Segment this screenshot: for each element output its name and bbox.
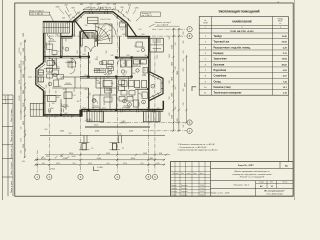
svg-text:Этаж дом - тип 3: Этаж дом - тип 3 [233, 184, 249, 186]
entrance steps bottom-left [30, 103, 43, 116]
svg-text:600: 600 [127, 55, 130, 57]
svg-text:302: 302 [65, 113, 68, 115]
svg-text:2.4: 2.4 [101, 69, 103, 71]
svg-text:302: 302 [90, 61, 92, 64]
svg-text:(1510): (1510) [19, 47, 21, 53]
svg-text:Подп: Подп [193, 173, 197, 175]
svg-text:240: 240 [157, 163, 160, 165]
svg-text:600: 600 [57, 97, 60, 99]
svg-text:Провер.: Провер. [171, 188, 178, 190]
svg-text:Разраб.: Разраб. [171, 185, 177, 187]
door arc left room [48, 58, 55, 65]
svg-text:4100: 4100 [60, 130, 64, 132]
svg-text:Листов: Листов [282, 182, 287, 184]
bottom-left dim text row [45, 154, 60, 156]
bay left side wall [72, 22, 74, 37]
svg-text:1,50: 1,50 [120, 23, 123, 25]
svg-text:1450: 1450 [169, 54, 171, 58]
svg-text:Тамбур: Тамбур [214, 35, 223, 38]
svg-text:Подп. и дата: Подп. и дата [11, 180, 13, 193]
svg-text:304: 304 [90, 4, 93, 6]
bay fixtures [39, 70, 44, 75]
wall junction nodes [79, 56, 81, 58]
svg-text:8: 8 [129, 104, 130, 106]
svg-text:Дата: Дата [200, 173, 203, 175]
octagonal bay outline [73, 12, 128, 23]
door arc hall [70, 58, 76, 64]
svg-text:2410: 2410 [102, 108, 106, 110]
svg-text:1,50: 1,50 [72, 95, 75, 97]
svg-text:Иванова: Иванова [181, 185, 187, 187]
svg-text:3400: 3400 [23, 90, 25, 94]
svg-text:302: 302 [25, 40, 27, 43]
svg-text:ПК „Спецавтоматика“: ПК „Спецавтоматика“ [264, 190, 284, 192]
svg-text:См. л. АС-01: См. л. АС-01 [30, 13, 44, 16]
svg-text:302: 302 [135, 45, 137, 48]
svg-text:2,40: 2,40 [141, 47, 144, 49]
svg-text:2410: 2410 [69, 153, 73, 155]
svg-text:910: 910 [107, 163, 110, 165]
svg-text:Утверд.: Утверд. [171, 194, 177, 196]
svg-text:302: 302 [51, 65, 54, 67]
svg-text:302: 302 [56, 91, 58, 94]
left wall [43, 33, 45, 62]
svg-text:1600: 1600 [172, 93, 174, 97]
svg-text:240: 240 [52, 103, 55, 105]
svg-text:1450: 1450 [172, 62, 174, 66]
svg-text:10.03: 10.03 [200, 194, 204, 196]
svg-text:240: 240 [111, 83, 114, 85]
svg-text:910: 910 [175, 43, 177, 46]
svg-text:Подсобная: Подсобная [214, 69, 227, 72]
svg-text:Закусочная: Закусочная [214, 59, 228, 61]
svg-text:302: 302 [77, 101, 80, 103]
svg-text:600: 600 [53, 55, 56, 57]
svg-text:1,20х2,10: 1,20х2,10 [100, 19, 107, 21]
svg-text:1500: 1500 [23, 48, 25, 52]
svg-text:Инв. № подл.: Инв. № подл. [10, 108, 13, 121]
svg-text:302: 302 [63, 89, 66, 91]
svg-text:240: 240 [42, 163, 45, 165]
svg-text:302: 302 [90, 93, 92, 96]
svg-text:910: 910 [25, 149, 27, 152]
porch A below south wall [87, 111, 104, 122]
svg-text:совмещение, обустройство с авт: совмещение, обустройство с автовыставкой [232, 173, 271, 176]
svg-text:240: 240 [183, 125, 185, 128]
svg-text:4100: 4100 [95, 130, 99, 132]
svg-text:7: 7 [66, 49, 67, 51]
fan stair treads [94, 24, 113, 44]
south wall right section [81, 109, 163, 111]
svg-text:910: 910 [183, 103, 185, 106]
svg-text:Кафе на отм. - 1300: Кафе на отм. - 1300 [211, 191, 230, 194]
svg-text:302: 302 [87, 97, 90, 99]
svg-text:254: 254 [62, 18, 65, 20]
svg-text:Н.контр.: Н.контр. [171, 191, 178, 193]
svg-text:з-1: з-1 [277, 2, 279, 4]
svg-text:302: 302 [145, 69, 147, 72]
svg-text:302: 302 [175, 107, 177, 110]
svg-text:240: 240 [85, 25, 88, 27]
svg-text:Взам. инв. №: Взам. инв. № [10, 145, 13, 159]
svg-text:10.03: 10.03 [200, 188, 204, 190]
svg-text:„Реактив“ та на площадке М: „Реактив“ та на площадке М [239, 177, 264, 179]
svg-text:0.8: 0.8 [96, 71, 98, 73]
svg-text:302: 302 [69, 133, 72, 135]
svg-text:2400: 2400 [23, 74, 25, 78]
svg-text:НАИМЕНОВАНИЕ: НАИМЕНОВАНИЕ [232, 20, 252, 23]
svg-text:600: 600 [77, 51, 79, 54]
svg-text:до: до [122, 148, 124, 150]
svg-text:600: 600 [119, 47, 121, 50]
svg-text:600: 600 [107, 77, 110, 79]
svg-text:Торговый зал: Торговый зал [214, 41, 230, 44]
svg-text:302: 302 [145, 55, 148, 57]
svg-text:940: 940 [63, 47, 65, 50]
svg-text:1450: 1450 [172, 77, 174, 81]
svg-text:Стадия: Стадия [259, 182, 264, 184]
svg-text:240: 240 [60, 156, 63, 158]
svg-text:1295: 1295 [56, 7, 60, 9]
svg-text:Жилой нерекреационный жилой до: Жилой нерекреационный жилой дом на [234, 170, 270, 173]
interior walls [60, 33, 62, 57]
svg-text:ПОМ: ПОМ [203, 23, 208, 25]
svg-text:4: 4 [143, 102, 144, 104]
svg-text:240: 240 [141, 63, 144, 65]
svg-text:304: 304 [105, 7, 108, 9]
svg-text:1890: 1890 [122, 34, 126, 36]
svg-text:600: 600 [183, 32, 185, 35]
svg-text:240: 240 [21, 151, 23, 154]
boxed fixture schedule small [94, 69, 105, 73]
svg-text:Лист: Лист [270, 182, 274, 184]
svg-text:600: 600 [74, 89, 76, 92]
svg-text:3200: 3200 [23, 144, 25, 148]
svg-text:908: 908 [113, 4, 116, 6]
upper vestibule in bay [88, 17, 99, 23]
svg-text:2410: 2410 [94, 125, 98, 127]
svg-text:240: 240 [169, 97, 171, 100]
svg-text:940: 940 [143, 75, 146, 77]
axis circles bottom [35, 174, 40, 179]
svg-text:240: 240 [175, 67, 177, 70]
svg-text:2410: 2410 [106, 153, 110, 155]
svg-text:1500: 1500 [46, 42, 48, 46]
big door arc right of vestibule [105, 24, 117, 36]
svg-text:302: 302 [137, 51, 140, 53]
svg-text:1410: 1410 [72, 156, 76, 158]
section mark right [192, 87, 196, 91]
svg-text:1: 1 [101, 63, 102, 65]
svg-text:45,60: 45,60 [282, 63, 288, 66]
right margin column line [287, 17, 289, 162]
svg-text:910: 910 [133, 73, 136, 75]
svg-text:1. Влажность помещения см. л.: 1. Влажность помещения см. л. АС-08 [178, 143, 216, 146]
svg-text:1510: 1510 [21, 138, 23, 142]
svg-text:302: 302 [183, 89, 185, 92]
svg-text:г. Усть-Каменогорск: г. Усть-Каменогорск [266, 193, 283, 195]
svg-text:940: 940 [121, 65, 123, 68]
svg-text:10,45: 10,45 [282, 35, 288, 38]
svg-text:240: 240 [25, 133, 27, 136]
svg-text:1510: 1510 [82, 108, 86, 110]
svg-text:Техническое помещение: Техническое помещение [214, 93, 243, 95]
svg-text:600: 600 [149, 61, 151, 64]
svg-text:300: 300 [157, 108, 160, 110]
chimney mark above bay [100, 7, 102, 10]
svg-text:302: 302 [103, 26, 106, 28]
svg-text:до: до [92, 148, 94, 150]
main walls [61, 36, 73, 38]
svg-text:600: 600 [175, 87, 177, 90]
svg-text:298: 298 [108, 8, 111, 10]
svg-text:Заказ № „ХХР“: Заказ № „ХХР“ [238, 164, 254, 167]
svg-text:304: 304 [80, 4, 83, 6]
svg-text:Коридор: Коридор [214, 53, 224, 55]
svg-text:600: 600 [81, 45, 83, 48]
door arcs below stair core [85, 46, 91, 52]
svg-text:304: 304 [128, 4, 131, 6]
svg-text:940: 940 [119, 134, 122, 136]
svg-text:302: 302 [111, 69, 113, 72]
svg-text:304: 304 [107, 4, 110, 6]
svg-text:302: 302 [66, 39, 68, 42]
element labels top-right [141, 12, 161, 17]
svg-text:5: 5 [152, 86, 153, 88]
staircase block top-left [43, 21, 69, 33]
svg-text:1295: 1295 [135, 8, 139, 10]
svg-text:240: 240 [21, 43, 23, 46]
extra center fixtures [108, 61, 114, 65]
axis circles right [187, 27, 192, 32]
leader arrows top band [59, 9, 64, 15]
sheet edge line [1, 0, 3, 200]
kitchen fixtures left [47, 68, 53, 72]
svg-text:1,20: 1,20 [135, 61, 138, 63]
svg-text:Склад: Склад [214, 81, 222, 83]
svg-text:1,2: 1,2 [123, 63, 125, 65]
right wall [148, 37, 150, 111]
svg-text:2410: 2410 [88, 163, 92, 165]
svg-text:600: 600 [85, 89, 88, 91]
svg-text:1,50: 1,50 [120, 29, 123, 31]
bottom dimension lines [35, 159, 165, 161]
svg-text:1.5: 1.5 [96, 69, 98, 71]
svg-text:910: 910 [97, 83, 100, 85]
window tick marks on south walls [48, 109, 50, 113]
svg-text:10.03: 10.03 [200, 185, 204, 187]
svg-text:1510: 1510 [46, 156, 50, 158]
svg-text:910: 910 [73, 163, 76, 165]
svg-text:1,20: 1,20 [58, 51, 61, 53]
svg-text:Сидоров: Сидоров [181, 191, 188, 193]
top dimension lines over bay [83, 8, 115, 10]
svg-text:910: 910 [169, 81, 171, 84]
svg-text:Лист: Лист [181, 173, 185, 175]
svg-text:10.03: 10.03 [200, 191, 204, 193]
svg-text:Изм: Изм [173, 173, 176, 175]
svg-text:940: 940 [111, 55, 114, 57]
svg-text:Разгрузочная с подсобн. помещ.: Разгрузочная с подсобн. помещ. [214, 46, 251, 49]
svg-text:17400: 17400 [97, 167, 103, 169]
svg-text:2410: 2410 [123, 163, 127, 165]
svg-text:1295: 1295 [88, 7, 92, 9]
svg-text:910: 910 [183, 69, 185, 72]
left bay (angled) [36, 63, 44, 91]
column stub axis 3 [83, 135, 85, 143]
svg-text:Служебная: Служебная [214, 75, 227, 78]
svg-text:Формат А2: Формат А2 [4, 96, 7, 105]
top-right room [150, 38, 163, 52]
svg-text:304: 304 [108, 19, 111, 21]
svg-text:910: 910 [21, 127, 23, 130]
svg-text:Петрова: Петрова [181, 188, 187, 190]
porch B below south wall [144, 111, 161, 122]
central stair core (rounded) [81, 31, 98, 47]
svg-text:302: 302 [84, 32, 87, 34]
column stub axis 4 [118, 135, 120, 143]
svg-text:см. л. АС-3: см. л. АС-3 [142, 14, 152, 17]
sheet frame [15, 3, 293, 196]
svg-text:3: 3 [280, 27, 281, 29]
svg-text:1500: 1500 [157, 55, 159, 59]
section mark bottom [94, 167, 100, 171]
dark wall-step junction [79, 110, 82, 117]
terrace sill lines [85, 126, 150, 128]
svg-text:302: 302 [123, 75, 126, 77]
svg-text:29,96: 29,96 [282, 42, 288, 44]
svg-text:1510: 1510 [23, 103, 25, 107]
svg-text:302: 302 [183, 41, 185, 44]
svg-text:302: 302 [142, 34, 145, 36]
svg-text:№: № [204, 19, 206, 22]
svg-text:(1750): (1750) [49, 168, 55, 170]
bay right side wall [126, 23, 128, 37]
svg-text:940: 940 [61, 77, 63, 80]
svg-text:5670: 5670 [184, 83, 186, 87]
svg-text:910: 910 [67, 56, 70, 58]
svg-text:600: 600 [45, 129, 48, 131]
svg-text:7400: 7400 [177, 71, 179, 75]
svg-text:200: 200 [97, 4, 100, 6]
svg-text:820: 820 [177, 118, 179, 121]
svg-text:2410: 2410 [56, 163, 60, 165]
svg-text:600: 600 [109, 26, 112, 28]
svg-text:3: 3 [124, 101, 125, 103]
svg-text:(1510): (1510) [19, 95, 21, 101]
svg-text:940: 940 [70, 63, 72, 66]
svg-text:6: 6 [54, 75, 55, 77]
svg-text:302: 302 [147, 108, 150, 110]
svg-text:600: 600 [107, 75, 110, 77]
fill sparse patches [107, 64, 113, 69]
svg-text:910: 910 [139, 29, 142, 31]
svg-text:910: 910 [127, 25, 129, 28]
svg-text:302: 302 [57, 67, 60, 69]
svg-text:АС: АС [285, 164, 289, 167]
diagonal wall from stair to core [75, 20, 89, 39]
left filing stamp strip [7, 95, 9, 196]
svg-text:4100: 4100 [129, 130, 133, 132]
svg-text:1500: 1500 [23, 33, 25, 37]
svg-text:240: 240 [25, 58, 27, 61]
svg-text:910: 910 [183, 51, 185, 54]
svg-text:1288: 1288 [92, 8, 96, 10]
svg-text:1890: 1890 [71, 35, 75, 37]
right dimension lines [172, 28, 174, 131]
svg-text:Отделку помещений наружную см.: Отделку помещений наружную см. АС-12 [178, 149, 219, 152]
svg-text:ПОМ. НА ОТМ. +0,000: ПОМ. НА ОТМ. +0,000 [231, 30, 255, 33]
svg-text:1200: 1200 [117, 86, 119, 90]
svg-text:600: 600 [139, 103, 141, 106]
svg-text:600: 600 [22, 161, 25, 163]
svg-text:600: 600 [169, 113, 171, 116]
svg-text:1.2: 1.2 [101, 71, 103, 73]
svg-text:600: 600 [126, 71, 128, 74]
extra fixtures / interior detail [121, 91, 127, 96]
svg-text:200: 200 [121, 7, 124, 9]
room number circles [65, 47, 69, 51]
svg-text:(910): (910) [19, 80, 21, 85]
svg-text:(240): (240) [19, 64, 21, 69]
svg-text:Остекление см. л. АС-05,09: Остекление см. л. АС-05,09 [180, 146, 208, 149]
svg-text:1510: 1510 [82, 54, 86, 56]
svg-text:1200: 1200 [172, 115, 174, 119]
svg-text:910: 910 [21, 53, 23, 56]
svg-text:2100: 2100 [172, 45, 174, 49]
svg-text:2: 2 [93, 100, 94, 102]
svg-text:Комната (стаж): Комната (стаж) [214, 87, 231, 89]
left dimension line [24, 40, 26, 158]
svg-text:16,85: 16,85 [282, 59, 288, 61]
svg-text:908: 908 [72, 8, 75, 10]
wc fixtures cluster [121, 60, 126, 67]
bay interior detail [120, 22, 126, 27]
svg-text:600: 600 [51, 108, 54, 110]
svg-text:302: 302 [106, 51, 108, 54]
svg-text:Подп. и дата: Подп. и дата [11, 129, 13, 142]
svg-text:1.20: 1.20 [97, 56, 99, 60]
right descending diagonal at bay [127, 23, 137, 37]
svg-text:940: 940 [127, 108, 130, 110]
svg-text:910: 910 [25, 107, 27, 110]
svg-text:240: 240 [169, 37, 171, 40]
svg-text:200: 200 [65, 5, 68, 7]
svg-text:Кухонная: Кухонная [214, 64, 225, 66]
svg-text:1: 1 [205, 27, 206, 29]
svg-text:2: 2 [242, 27, 243, 29]
svg-text:Козлова: Козлова [181, 194, 187, 196]
svg-text:Кол: Кол [176, 173, 179, 175]
column axis dash-dot lines [36, 150, 38, 173]
svg-text:910: 910 [141, 163, 144, 165]
svg-text:240: 240 [183, 59, 185, 62]
svg-text:Инв. № дубл.: Инв. № дубл. [10, 161, 13, 174]
svg-text:Экспликация помещений: Экспликация помещений [218, 9, 259, 13]
svg-text:1510: 1510 [84, 75, 88, 77]
svg-text:304: 304 [109, 30, 112, 32]
svg-text:600: 600 [59, 86, 62, 88]
right hexagonal bay [149, 72, 163, 101]
svg-text:2410: 2410 [23, 121, 25, 125]
title block [171, 162, 294, 197]
svg-text:600: 600 [46, 85, 48, 88]
svg-text:910: 910 [159, 153, 162, 155]
svg-text:302: 302 [25, 86, 27, 89]
svg-text:920: 920 [56, 35, 59, 37]
south wall left section [44, 114, 81, 116]
svg-text:302: 302 [104, 103, 106, 106]
